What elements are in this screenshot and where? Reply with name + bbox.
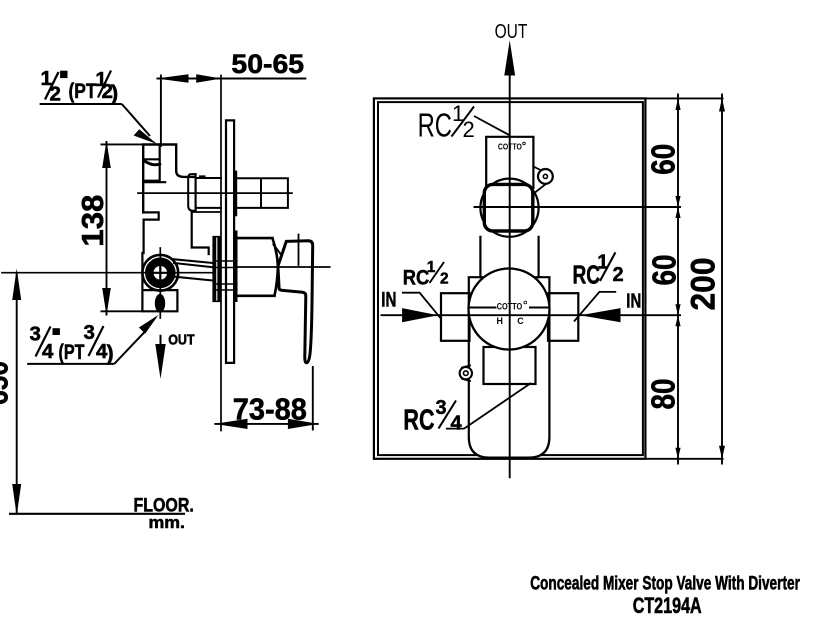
svg-text:60: 60 [646, 255, 683, 286]
dim 50-65 left extension [160, 75, 162, 148]
svg-text:H: H [497, 316, 503, 326]
small arrows column1 [675, 98, 680, 458]
floor line [9, 513, 185, 515]
dim column line 60-60-80 [677, 94, 679, 465]
thread shading wedge [145, 161, 160, 165]
svg-text:4: 4 [42, 340, 54, 363]
three-quarter label leader diagonal [114, 330, 147, 364]
pipe right of wall with union [236, 178, 288, 208]
text RC half top [418, 101, 475, 144]
svg-text:(PT: (PT [69, 79, 97, 103]
right inlet wing [548, 293, 578, 341]
knob black ring [149, 262, 171, 284]
svg-text:OUT: OUT [495, 21, 528, 43]
svg-text:73-88: 73-88 [233, 392, 307, 427]
dim 50-65 left arrow [157, 74, 189, 83]
svg-text:CT2194A: CT2194A [633, 593, 702, 618]
svg-text:mm.: mm. [149, 513, 186, 532]
svg-text:C: C [517, 316, 524, 326]
mid column under pipe [192, 212, 209, 254]
upper rounded square [484, 184, 533, 231]
half-inch leader arrowhead [134, 129, 158, 144]
knob outer circle [142, 255, 178, 291]
lever handle side view [278, 241, 313, 363]
svg-text:3: 3 [84, 321, 95, 344]
left inlet wing [441, 293, 470, 341]
centerline trim axis right [237, 266, 330, 268]
centerline upper pipe axis [138, 192, 292, 194]
svg-text:50-65: 50-65 [231, 49, 304, 79]
OUT down arrowhead [155, 344, 165, 379]
wall plate inner rect [378, 102, 643, 455]
knob crosshair [152, 265, 169, 282]
half-inch label leader diagonal [122, 104, 150, 136]
port division tick 60-60 [474, 206, 682, 208]
three-quarter label underline [27, 363, 114, 365]
OUT up arrowhead [504, 40, 515, 75]
svg-text:3: 3 [436, 397, 447, 419]
svg-text:COTTO: COTTO [497, 302, 523, 312]
svg-text:IN: IN [626, 291, 641, 313]
valve body upper half-inch block [143, 145, 195, 213]
wall face line [220, 76, 222, 431]
lever crease line [298, 235, 300, 266]
dim 650 dimension line [16, 273, 18, 514]
lower-left lug circle [460, 367, 472, 379]
svg-text:RC: RC [403, 404, 434, 436]
dim 73-88 right extension [312, 366, 314, 431]
upper-right lug circle [538, 169, 553, 184]
top RC half leader [474, 116, 510, 136]
half-inch label text [41, 67, 119, 106]
dim 138 bottom arrow [102, 288, 111, 316]
three-quarter label text [30, 321, 114, 365]
upper-right lug gussets [533, 167, 547, 193]
stem lines through wall [215, 261, 237, 290]
hub-lever connector [273, 245, 280, 254]
svg-text:2: 2 [440, 271, 449, 288]
dim 73-88 dimension line [214, 423, 318, 425]
svg-text:60: 60 [645, 144, 682, 175]
lower-left lug gussets [462, 366, 470, 382]
dim 650 top arrow [12, 269, 21, 301]
upper-right lug hole [543, 174, 547, 178]
svg-text:RC: RC [573, 260, 601, 290]
knob arm to flange [174, 259, 213, 280]
pipe nut left of wall [188, 174, 195, 211]
body left face steps [143, 212, 159, 253]
three-quarter leader arrowhead [139, 315, 159, 334]
svg-text:RC: RC [403, 265, 430, 289]
dim 50-65 dimension line [157, 78, 307, 80]
knob axis vertical [159, 248, 161, 318]
vertical centerline front view [509, 72, 511, 478]
handle hub cylinder [237, 238, 278, 296]
upper tube verticals [480, 237, 538, 277]
centerline valve axis left [2, 272, 216, 274]
wall plate outer rect [374, 98, 646, 458]
svg-text:4: 4 [451, 412, 463, 434]
pipe trim flange dark strip [234, 171, 237, 215]
under-pipe line to wall [192, 211, 220, 213]
three-quarter port rect [484, 347, 536, 384]
svg-text:138: 138 [75, 195, 110, 247]
upper port circle [480, 179, 538, 237]
dim 138 top arrow [102, 141, 111, 169]
svg-text:80: 80 [645, 379, 682, 410]
IN left arrowhead [402, 308, 438, 322]
dim 138 bottom tick [101, 310, 143, 312]
IN right arrowhead [580, 308, 620, 322]
RC three-quarter leader [446, 383, 531, 429]
outlet port black oval [155, 294, 165, 313]
svg-text:COTTO: COTTO [498, 142, 522, 151]
right RC half leader [574, 292, 616, 322]
dim column line 200 [721, 94, 723, 465]
lower-left lug hole [464, 371, 469, 376]
small arrows column2 [719, 98, 725, 458]
thread lines on block [143, 145, 165, 183]
svg-text:RC: RC [418, 107, 452, 144]
dim 73-88 right arrow [288, 419, 319, 429]
RIGHT FRONT VIEW [374, 98, 646, 458]
escutcheon flange black band [213, 237, 220, 302]
text RC half left [403, 259, 449, 289]
cover plate edge view [226, 120, 234, 363]
cartridge internal line [470, 307, 551, 309]
svg-text:2: 2 [613, 264, 624, 286]
half-inch label leader underline [40, 103, 122, 105]
dim 138 dimension line [106, 141, 108, 316]
svg-text:Concealed Mixer Stop Valve Wi: Concealed Mixer Stop Valve With Diverter [530, 574, 800, 595]
svg-text:): ) [107, 341, 114, 365]
dim 73-88 left arrow [214, 419, 247, 429]
svg-text:OUT: OUT [168, 332, 194, 349]
dim 650 bottom arrow [12, 484, 21, 516]
dim 50-65 right arrow [196, 74, 221, 82]
svg-text:3: 3 [30, 322, 41, 345]
dim 138 top tick [101, 143, 144, 145]
flange white seam [216, 238, 218, 300]
knob white center [154, 266, 168, 280]
horizontal centerline IN-IN [381, 314, 682, 316]
OUT down arrow shaft [160, 335, 162, 350]
svg-text:200: 200 [685, 258, 723, 311]
left RC half leader [402, 293, 441, 319]
text RC half right [573, 251, 624, 289]
valve trim flange dark strip [234, 231, 237, 301]
svg-text:(PT: (PT [59, 340, 85, 364]
bottom tick extension [645, 458, 723, 460]
text RC three-quarter [403, 397, 462, 436]
svg-text:650: 650 [0, 361, 15, 405]
pipe body left of wall [196, 174, 221, 211]
svg-text:1: 1 [427, 259, 436, 276]
nut shoulder bump [200, 176, 205, 178]
main valve circle [469, 269, 550, 350]
top tick extension [645, 97, 723, 99]
body lower-left block with 3/4 outlet [142, 253, 177, 311]
svg-text:): ) [111, 81, 118, 105]
svg-text:IN: IN [381, 289, 396, 312]
upper port rect [486, 137, 533, 188]
valve tall body with rounded bottom [469, 277, 550, 457]
